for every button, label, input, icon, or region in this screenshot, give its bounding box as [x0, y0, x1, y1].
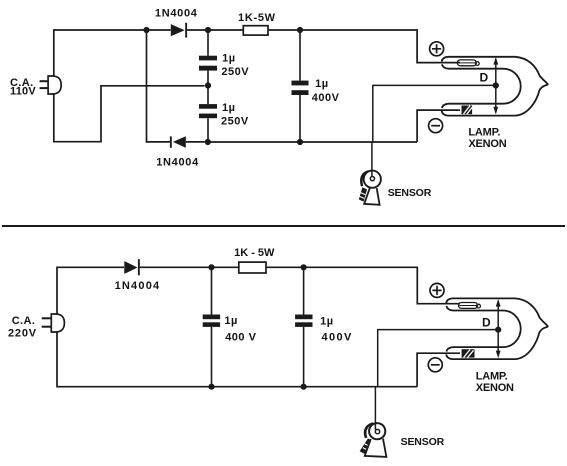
svg-text:XENON: XENON — [476, 382, 514, 394]
wire: trigger from rail to node D — [373, 85, 493, 142]
electrode: cathode hatched block (bottom circuit) — [462, 349, 475, 358]
wire: AC node down to D2 cathode — [147, 30, 170, 142]
terminal - (lamp cathode, top circuit) — [429, 119, 443, 133]
label LAMP. XENON (bottom) — [476, 370, 514, 394]
label LAMP. XENON (top) — [468, 126, 506, 150]
svg-text:400 V: 400 V — [225, 331, 256, 343]
electrode: anode pill (top circuit) — [457, 60, 479, 66]
wire: R1 to lamp anode terminal — [268, 30, 460, 63]
svg-text:1N4004: 1N4004 — [115, 280, 161, 292]
capacitor C4 1u 400V — [203, 267, 220, 386]
electrode: anode pill (bottom circuit) — [459, 303, 481, 309]
wire: plug top up and along top line to D3 anode — [57, 267, 124, 314]
svg-text:D: D — [480, 71, 489, 85]
diode D1 1N4004 (top rectifier) — [171, 23, 187, 38]
svg-text:1N4004: 1N4004 — [156, 156, 199, 168]
wire: plug top prong up and along AC top line to D1 anode — [54, 30, 171, 76]
svg-text:D: D — [482, 315, 491, 329]
lamp envelope: xenon flash tube (top circuit) — [442, 57, 548, 116]
wire: -HV bottom rail — [208, 141, 417, 143]
svg-text:1K - 5W: 1K - 5W — [234, 247, 275, 259]
wire: AC neutral from plug bottom to capacitor midpoint (step) — [54, 86, 205, 142]
junction: AC line node (top) — [143, 27, 149, 33]
capacitor C2 1u 250V — [199, 86, 217, 143]
capacitor C1 1u 250V — [199, 30, 217, 86]
dimension line D with arrows (top lamp) — [493, 57, 498, 115]
svg-text:1µ: 1µ — [222, 53, 235, 65]
divider line between the two circuits — [2, 225, 565, 227]
label C.A. 220V — [8, 315, 37, 339]
svg-text:250V: 250V — [221, 115, 249, 127]
lamp envelope: xenon flash tube (bottom circuit) — [446, 298, 548, 359]
svg-text:400V: 400V — [322, 331, 353, 343]
svg-text:400V: 400V — [312, 92, 340, 104]
wire: sensor lead — [371, 142, 373, 177]
junction: +HV node, top of C1 — [205, 27, 211, 33]
label 1u 250V (C2) — [221, 102, 249, 127]
plug P2 (C.A. 220V mains input) — [42, 314, 65, 332]
label 1u 400V (C3) — [312, 78, 340, 104]
node D (trigger connection, bottom lamp) — [495, 327, 501, 333]
wire: sensor lead (bottom) — [374, 387, 376, 429]
svg-text:C.A.: C.A. — [12, 315, 36, 327]
junction: top of C4 — [208, 264, 214, 270]
svg-text:1N4004: 1N4004 — [155, 8, 198, 20]
plug P1 (C.A. 110V mains input) — [40, 76, 62, 94]
svg-text:SENSOR: SENSOR — [401, 436, 445, 448]
diode D2 1N4004 (bottom rectifier, points left) — [170, 136, 186, 148]
junction: -HV node, bottom of C2 — [205, 139, 211, 145]
svg-text:1µ: 1µ — [320, 315, 333, 327]
diode D3 1N4004 — [124, 259, 139, 275]
dimension line D with arrows (bottom lamp) — [496, 299, 501, 358]
svg-text:250V: 250V — [221, 66, 249, 78]
wire: D2 anode to -HV node — [186, 141, 205, 143]
sensor (slave trigger, bottom circuit) — [360, 422, 387, 457]
svg-text:1µ: 1µ — [224, 315, 237, 327]
capacitor C5 1u 400V — [295, 267, 312, 386]
svg-text:LAMP.: LAMP. — [468, 126, 500, 138]
sensor (slave trigger, top circuit) — [359, 170, 381, 205]
svg-text:XENON: XENON — [468, 138, 506, 150]
svg-text:LAMP.: LAMP. — [476, 370, 508, 382]
label 1u 400V (C5) — [320, 315, 353, 343]
junction: R2 output / top of C5 — [301, 264, 307, 270]
terminal + (lamp anode, bottom circuit) — [430, 283, 444, 297]
terminal + (lamp anode, top circuit) — [430, 42, 444, 56]
svg-text:1µ: 1µ — [222, 102, 235, 114]
wire: trigger from rail to node D (bottom) — [378, 330, 496, 387]
wire: rail up to lamp cathode terminal — [417, 110, 460, 142]
electrode: cathode hatched block (top circuit) — [462, 106, 473, 115]
label 1u 400V (C4) — [224, 315, 256, 343]
capacitor C3 1u 400V — [292, 30, 309, 142]
wire: plug bottom down and along bottom rail — [57, 332, 417, 387]
svg-text:220V: 220V — [8, 328, 37, 340]
resistor R2 1K-5W — [239, 262, 266, 273]
resistor R1 1K-5W — [243, 26, 268, 35]
junction: C5 bottom — [301, 384, 307, 390]
node D (trigger connection, top lamp) — [493, 82, 499, 88]
wire: rail up to lamp cathode terminal — [417, 353, 460, 387]
svg-text:110V: 110V — [10, 86, 36, 98]
svg-text:1µ: 1µ — [315, 78, 328, 90]
wire: D3 cathode to R2 — [140, 266, 239, 268]
wire: D1 cathode to R1 — [187, 29, 243, 31]
junction: C4 bottom — [208, 384, 214, 390]
junction: C3 bottom on -HV rail — [297, 139, 303, 145]
label 1u 250V (C1) — [221, 53, 249, 78]
junction: capacitor midpoint node — [205, 82, 211, 88]
label C.A. 110V — [10, 77, 36, 98]
wire: R2 to lamp anode terminal — [266, 267, 460, 303]
junction: R1 output / C3 top — [297, 27, 303, 33]
svg-text:1K-5W: 1K-5W — [238, 12, 276, 24]
svg-text:SENSOR: SENSOR — [388, 187, 432, 199]
terminal - (lamp cathode, bottom circuit) — [428, 358, 442, 372]
